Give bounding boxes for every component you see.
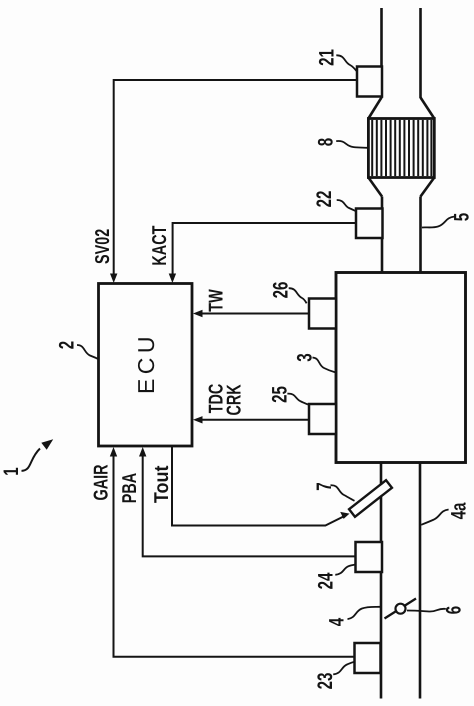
sensor 25 bbox=[309, 404, 336, 434]
svg-text:8: 8 bbox=[315, 138, 338, 147]
svg-text:21: 21 bbox=[316, 49, 339, 66]
wire SV02 from sensor 21 to ECU bbox=[114, 80, 357, 280]
svg-text:CRK: CRK bbox=[224, 384, 246, 416]
arrowhead KACT into ECU top bbox=[169, 274, 176, 284]
leader for label 26 bbox=[289, 288, 307, 303]
leader for label 22 bbox=[337, 200, 356, 211]
leader for label 3 bbox=[313, 358, 336, 373]
svg-text:7: 7 bbox=[313, 482, 336, 490]
svg-text:26: 26 bbox=[270, 282, 293, 299]
svg-text:ECU: ECU bbox=[133, 332, 159, 394]
leader for label 6 bbox=[407, 609, 446, 612]
leader for label 25 bbox=[287, 394, 308, 405]
svg-text:6: 6 bbox=[443, 606, 466, 614]
wire exhaust pipe top segment bbox=[382, 8, 421, 98]
throttle valve 6 bbox=[385, 599, 417, 619]
svg-text:2: 2 bbox=[56, 341, 79, 349]
injector 7 bbox=[349, 480, 392, 517]
arrowhead Tout toward injector bbox=[340, 512, 349, 519]
wire TDC CRK from sensor 25 to ECU bbox=[196, 419, 309, 421]
leader for label 8 bbox=[336, 141, 367, 148]
svg-text:4a: 4a bbox=[448, 502, 471, 519]
leader for label 2 bbox=[77, 345, 98, 359]
arrowhead PBA into ECU bottom bbox=[139, 447, 146, 457]
leader for label 21 bbox=[336, 55, 356, 71]
leader for label 5 bbox=[422, 217, 455, 228]
svg-text:22: 22 bbox=[313, 191, 336, 208]
svg-text:PBA: PBA bbox=[119, 473, 141, 503]
catalytic converter 8 bbox=[368, 119, 434, 178]
leader for label 4 bbox=[348, 607, 381, 619]
svg-text:24: 24 bbox=[315, 572, 338, 589]
wire KACT from sensor 22 to ECU bbox=[173, 223, 356, 280]
svg-text:1: 1 bbox=[0, 467, 23, 476]
wire TW from sensor 26 to ECU bbox=[196, 313, 309, 315]
svg-text:Tout: Tout bbox=[151, 465, 173, 503]
arrowhead TW into ECU right bbox=[193, 310, 203, 317]
arrowhead SV02 into ECU top bbox=[110, 274, 117, 284]
leader for label 23 bbox=[333, 662, 354, 674]
svg-text:SV02: SV02 bbox=[92, 229, 114, 264]
leader for label 24 bbox=[335, 565, 355, 575]
arrow leader for label 1 bbox=[22, 449, 41, 471]
svg-text:KACT: KACT bbox=[149, 226, 171, 266]
arrowhead GAIR into ECU bottom bbox=[110, 447, 117, 457]
sensor 24 bbox=[356, 542, 383, 572]
svg-text:4: 4 bbox=[326, 618, 349, 627]
sensor 23 bbox=[355, 643, 381, 673]
wire taper out of catalytic converter bbox=[368, 178, 434, 197]
wire exhaust pipe middle segment bbox=[382, 197, 421, 273]
svg-text:GAIR: GAIR bbox=[90, 464, 112, 500]
arrowhead TDC CRK into ECU right bbox=[193, 416, 203, 423]
sensor 22 bbox=[356, 209, 383, 239]
wire taper into catalytic converter bbox=[368, 98, 434, 119]
wire Tout from ECU to injector 7 bbox=[172, 446, 346, 526]
wire GAIR from sensor 23 to ECU bbox=[114, 450, 355, 657]
wire intake pipe lower segment bbox=[381, 463, 420, 699]
leader for label 7 bbox=[331, 485, 355, 501]
wire PBA from sensor 24 to ECU bbox=[143, 450, 356, 556]
sensor 26 bbox=[309, 299, 336, 329]
engine block 3 bbox=[336, 273, 466, 463]
leader for label 4a bbox=[421, 510, 448, 525]
ECU U2 box bbox=[99, 284, 193, 447]
svg-text:TW: TW bbox=[206, 289, 228, 311]
sensor 21 bbox=[357, 67, 382, 97]
